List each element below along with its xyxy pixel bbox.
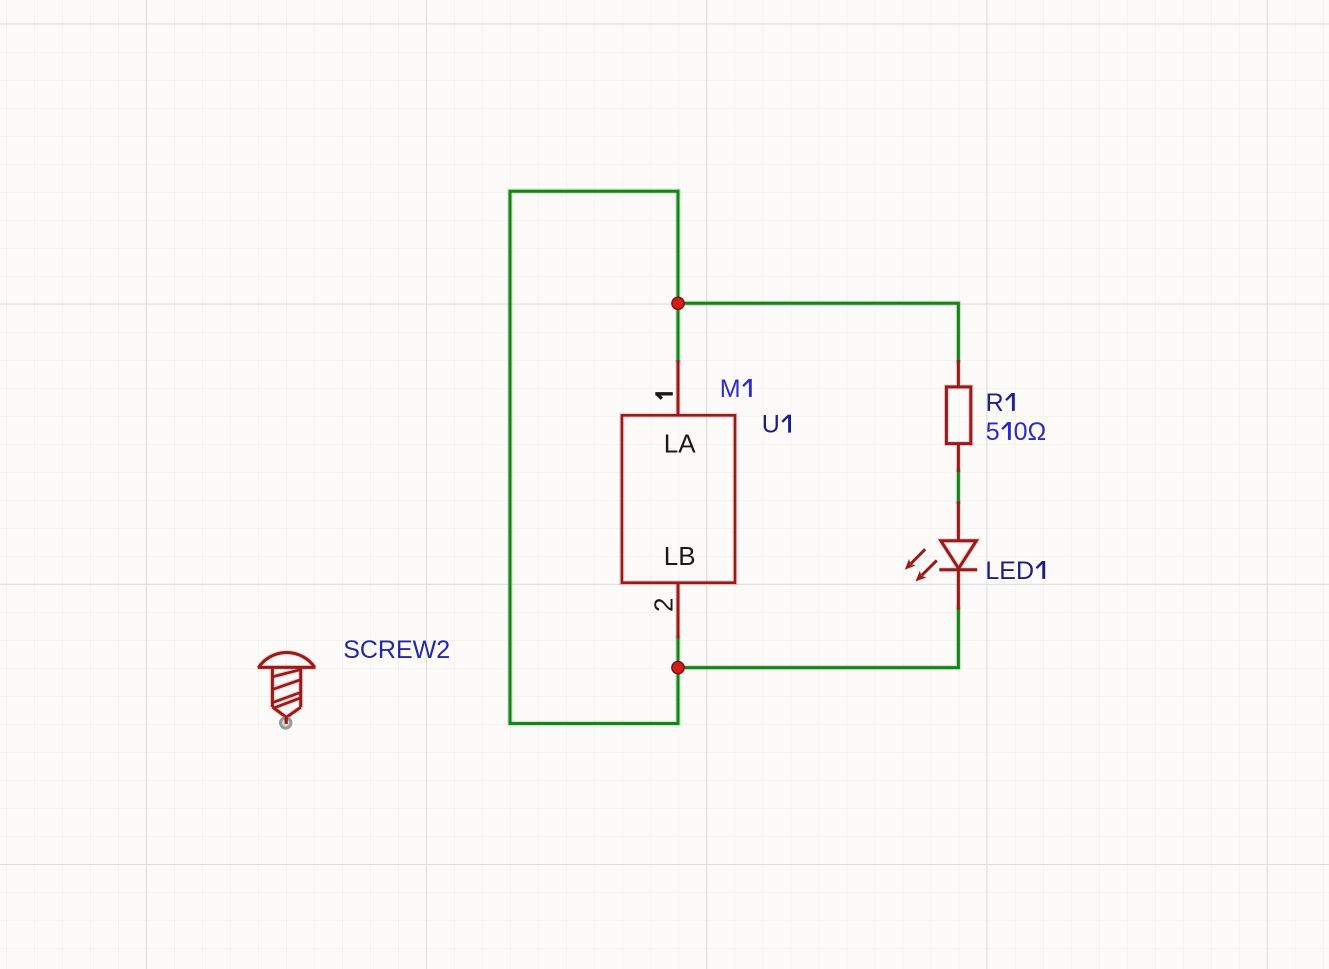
svg-text:M: M bbox=[720, 375, 741, 403]
svg-text:U: U bbox=[762, 411, 780, 439]
svg-text:5: 5 bbox=[986, 418, 1000, 446]
svg-text:LA: LA bbox=[664, 429, 696, 459]
svg-text:SCREW2: SCREW2 bbox=[343, 636, 450, 664]
svg-text:LB: LB bbox=[664, 541, 696, 571]
svg-text:2: 2 bbox=[648, 598, 678, 612]
svg-text:LED: LED bbox=[985, 557, 1034, 585]
svg-text:R: R bbox=[986, 389, 1004, 417]
svg-text:0Ω: 0Ω bbox=[1014, 418, 1047, 446]
